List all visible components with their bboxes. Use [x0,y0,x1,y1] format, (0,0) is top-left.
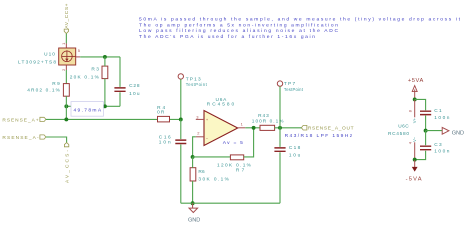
svg-text:20K 0.1%: 20K 0.1% [70,74,100,80]
wire R6 column [192,157,194,203]
capacitor C16 [159,119,187,203]
svg-text:RC4580: RC4580 [388,131,409,137]
svg-text:AV_CCS+: AV_CCS+ [64,3,70,28]
wire AV_CCS+ to U10 pin1 [65,34,67,44]
wire pin5 rail [80,56,120,58]
power -5VA [406,160,422,183]
svg-text:30K 0.1%: 30K 0.1% [198,177,229,183]
svg-text:TestPoint: TestPoint [284,87,304,92]
svg-text:Av = 5: Av = 5 [223,140,243,146]
node R3 top [103,55,107,59]
capacitor C1 [415,99,450,130]
wire R9 down to RSENSE_A+ [65,96,67,119]
node C1/C3 [424,129,428,133]
capacitor C28 [114,57,139,106]
node feedback [191,155,195,159]
wire output [245,127,260,129]
svg-text:AV_CCS-: AV_CCS- [64,150,70,183]
node ground rail [191,201,195,205]
resistor R6 [190,168,230,183]
svg-text:LT3092+TS8: LT3092+TS8 [18,59,56,65]
svg-text:TestPoint: TestPoint [186,82,208,87]
hierarchical label RSENSE_A_OUT [301,125,353,131]
svg-text:10u: 10u [129,91,140,97]
resistor R9 [27,81,69,96]
svg-text:+5VA: +5VA [408,78,424,84]
node R9 bottom [64,104,68,108]
op-amp U6A [204,97,238,146]
wire RSENSE_A+ to op-amp [46,118,181,120]
wire bottom rail of current source loop [66,105,120,107]
wire R7 to output column [244,128,254,157]
svg-text:10u: 10u [289,152,301,158]
resistor R43 [252,113,284,131]
resistor R3 [70,66,108,80]
wire R43 to output label [275,127,302,129]
U10 pin 1 [61,42,67,48]
op-amp pin 2 [196,131,204,137]
svg-text:C1: C1 [434,108,442,114]
svg-text:U10: U10 [44,51,55,57]
wire RSENSE_A- to AV_CCS- [46,137,67,143]
hierarchical label RSENSE_A+ [2,117,46,123]
svg-text:0R: 0R [157,109,165,115]
current annotation 49.78mA [71,102,103,117]
svg-text:R9: R9 [52,81,60,87]
node output [252,126,256,130]
op-amp U6C power unit [388,123,409,136]
global label AV_CCS- [64,143,70,183]
svg-text:C28: C28 [129,83,140,89]
svg-text:C18: C18 [289,145,301,151]
power +5VA [408,78,424,100]
svg-text:R43/R18 LPF 159Hz: R43/R18 LPF 159Hz [285,133,353,139]
current source U10 [18,48,76,65]
svg-text:4R02 0.1%: 4R02 0.1% [27,88,60,94]
svg-text:RSENSE_A_OUT: RSENSE_A_OUT [308,125,354,131]
svg-text:R43: R43 [258,113,269,119]
test point TP7 [277,81,303,92]
wire TP13 down [180,79,182,119]
U10 pin 2 [61,65,66,71]
op-amp pin 1 [238,121,246,127]
svg-text:GND: GND [188,217,200,223]
resistor R4 [157,105,169,122]
wire pin2 to feedback node [193,137,196,157]
svg-text:100n: 100n [434,115,450,121]
resistor R7 [217,155,252,174]
U6C pin 8 [408,99,417,123]
U10 pin 5 [76,48,81,57]
global label AV_CCS+ [64,3,70,33]
svg-text:120K 0.1%: 120K 0.1% [217,162,252,168]
ground GND right [442,127,464,136]
node -5VA [413,158,417,162]
wire U10 to R9 [65,70,67,84]
svg-text:U6C: U6C [398,123,409,129]
svg-text:R3: R3 [91,66,99,72]
wire R3 column [104,57,106,106]
op-amp pin 3 [196,114,204,119]
node RSENSE_A+ column [64,117,68,121]
svg-text:The op amp performs a 5x non-i: The op amp performs a 5x non-inverting a… [139,23,338,29]
svg-text:GND: GND [452,130,464,136]
svg-text:R6: R6 [198,169,205,175]
svg-text:RSENSE_A-: RSENSE_A- [2,135,39,141]
svg-text:V−: V− [412,136,417,142]
ground GND [188,203,200,223]
node TP7 column [278,126,282,130]
svg-text:V+: V+ [412,118,417,124]
wire to GND [426,130,443,132]
wire TP7 down [279,86,281,127]
svg-text:-5VA: -5VA [406,177,422,183]
U6C pin 4 [408,136,417,159]
svg-text:100R 0.1%: 100R 0.1% [252,118,284,124]
comment text block [139,17,461,40]
test point TP13 [178,74,208,87]
svg-text:100n: 100n [434,148,450,154]
node +5VA [413,97,417,101]
svg-text:The ADC's PGA is used for a fu: The ADC's PGA is used for a further 1-16… [139,34,315,40]
capacitor C18 [274,128,300,203]
node op-amp + input [179,117,183,121]
capacitor C3 [415,131,450,160]
svg-text:C3: C3 [434,142,442,148]
svg-text:10n: 10n [159,139,171,145]
wire ground rail [181,202,280,204]
svg-text:49.78mA: 49.78mA [74,108,102,114]
hierarchical label RSENSE_A- [2,135,46,141]
svg-text:RSENSE_A+: RSENSE_A+ [2,117,38,123]
node R3 bottom [103,104,107,108]
wire feedback left [193,156,231,158]
